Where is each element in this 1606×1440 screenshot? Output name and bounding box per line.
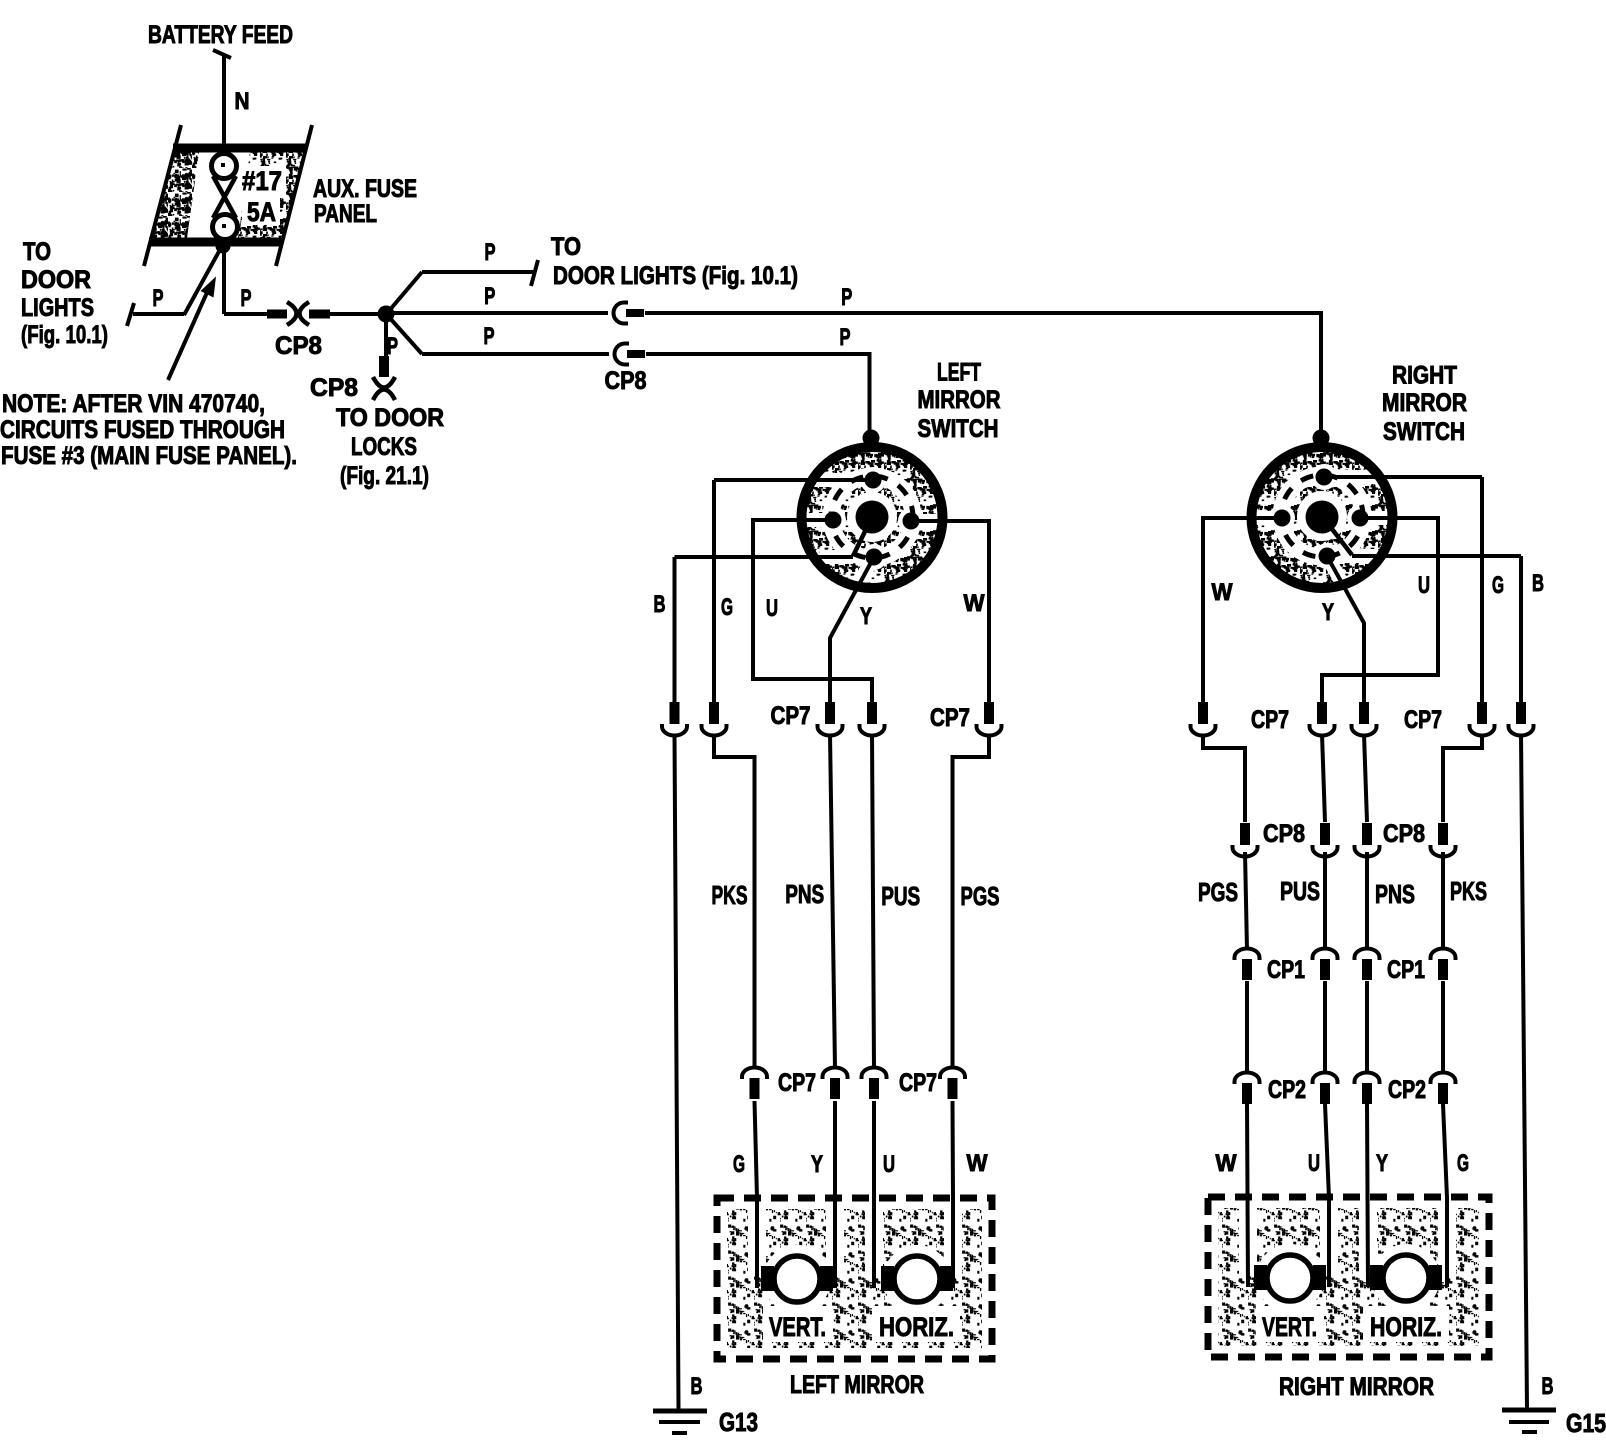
svg-text:G: G <box>1492 572 1504 599</box>
note arrow after VIN 470740 <box>168 277 216 381</box>
left switch center pin <box>856 501 889 534</box>
label CP8 right row b <box>1383 820 1425 848</box>
svg-text:HORIZ.: HORIZ. <box>1370 1312 1442 1342</box>
label RIGHT MIRROR SWITCH <box>1382 362 1467 447</box>
wire U left upper <box>753 520 872 703</box>
label RIGHT MIRROR <box>1279 1373 1434 1401</box>
svg-text:CP2: CP2 <box>1268 1076 1306 1104</box>
label CP7 left row2 a <box>778 1069 816 1097</box>
svg-text:P: P <box>241 285 252 312</box>
svg-text:SWITCH: SWITCH <box>918 415 999 443</box>
label PUS left <box>881 881 920 911</box>
svg-text:G: G <box>1457 1150 1469 1177</box>
label LEFT MIRROR SWITCH <box>918 359 1001 444</box>
connector CP8 door locks <box>373 356 395 400</box>
svg-text:FUSE #3 (MAIN FUSE PANEL).: FUSE #3 (MAIN FUSE PANEL). <box>1 442 297 470</box>
wire U right upper <box>1322 518 1438 703</box>
right switch rim <box>1252 447 1393 588</box>
connector CP1 Y right <box>1355 949 1380 980</box>
wire B right <box>1352 556 1521 703</box>
svg-text:PNS: PNS <box>785 879 824 909</box>
label BATTERY FEED <box>148 21 293 49</box>
label HORIZ. right <box>1370 1312 1442 1342</box>
connector CP2 G right <box>1431 1073 1456 1105</box>
label W left <box>964 590 985 617</box>
svg-text:PKS: PKS <box>1450 876 1487 906</box>
label LEFT MIRROR <box>790 1371 924 1399</box>
wire W into right mirror <box>1247 1104 1248 1287</box>
fuse panel (AUX. FUSE PANEL) <box>144 125 312 266</box>
connector CP1 U right <box>1313 949 1338 980</box>
label W right <box>1212 579 1233 606</box>
ground G15 <box>1502 1410 1556 1432</box>
connector CP7 W left lower <box>940 1068 965 1100</box>
left switch rim <box>802 447 943 588</box>
wire U right low <box>1323 981 1327 1072</box>
label AUX. FUSE PANEL <box>313 175 417 228</box>
label TO DOOR LOCKS (Fig. 21.1) <box>336 404 444 490</box>
svg-text:CP1: CP1 <box>1267 956 1305 984</box>
svg-text:PUS: PUS <box>881 881 920 911</box>
label #17 <box>242 166 282 196</box>
connector CP7 B right <box>1509 702 1534 736</box>
label PNS right <box>1375 879 1415 909</box>
label B left bottom <box>691 1373 703 1400</box>
label VERT. right <box>1262 1312 1317 1342</box>
right switch pin S <box>1319 548 1336 565</box>
label PKS right <box>1450 876 1487 906</box>
wiper left switch <box>853 517 872 556</box>
label HORIZ. left <box>879 1312 954 1342</box>
svg-text:LEFT: LEFT <box>937 359 981 387</box>
connector CP8 Y right <box>1355 823 1380 857</box>
label U left <box>766 595 778 622</box>
svg-text:#17: #17 <box>242 166 282 196</box>
label U right bottom <box>1308 1150 1320 1177</box>
right switch pin N <box>1316 469 1333 486</box>
node right switch feed <box>1313 430 1330 447</box>
connector CP7 B left <box>662 702 687 736</box>
label CP8 right row a <box>1263 820 1305 848</box>
label P low right <box>840 324 851 351</box>
svg-text:CP8: CP8 <box>1263 820 1305 848</box>
wire battery feed N <box>213 50 231 148</box>
wire P fuse output down <box>222 246 226 314</box>
connector CP7 Y left lower <box>823 1068 848 1100</box>
wire Y into left mirror <box>833 1101 837 1288</box>
svg-text:G13: G13 <box>719 1407 758 1437</box>
left mirror box border <box>717 1198 992 1359</box>
wire W right upper <box>1203 518 1282 703</box>
svg-text:U: U <box>766 595 778 622</box>
label CP1 right row a <box>1267 956 1305 984</box>
label TO DOOR LIGHTS (Fig. 10.1) top <box>551 233 798 290</box>
wire P fuse to door lights stub <box>127 246 222 326</box>
svg-text:CP7: CP7 <box>1404 706 1442 734</box>
svg-text:SWITCH: SWITCH <box>1383 418 1465 446</box>
svg-text:B: B <box>1542 1373 1554 1400</box>
svg-text:5A: 5A <box>247 197 276 227</box>
connector CP8 U right <box>1313 823 1338 857</box>
label P door locks <box>387 333 398 360</box>
motor VERT right mirror <box>1254 1255 1326 1301</box>
svg-text:P: P <box>484 323 495 350</box>
connector CP7 Y right <box>1352 702 1377 736</box>
wire U right mid <box>1322 734 1325 822</box>
left switch pin E <box>903 513 920 530</box>
svg-text:U: U <box>883 1151 895 1178</box>
wire Y left upper <box>830 557 874 703</box>
svg-text:P: P <box>841 284 852 311</box>
svg-text:P: P <box>387 333 398 360</box>
label CP1 right row b <box>1387 956 1425 984</box>
connector CP8 inline <box>267 302 330 325</box>
connector CP1 G right <box>1431 949 1456 980</box>
svg-text:CP2: CP2 <box>1388 1076 1426 1104</box>
switch body right mirror switch <box>1244 448 1398 618</box>
label P low left <box>484 323 495 350</box>
wire G right mid <box>1443 734 1482 822</box>
right mirror box fill <box>1218 1204 1479 1346</box>
note text <box>0 390 297 470</box>
connector CP8 G right <box>1431 823 1456 857</box>
svg-text:CP7: CP7 <box>899 1069 937 1097</box>
wire Y PNS <box>830 734 835 1068</box>
svg-text:PNS: PNS <box>1375 879 1415 909</box>
svg-text:LEFT MIRROR: LEFT MIRROR <box>790 1371 924 1399</box>
node P distribution junction <box>378 306 395 323</box>
svg-text:BATTERY FEED: BATTERY FEED <box>148 21 293 49</box>
label CP2 right row b <box>1388 1076 1426 1104</box>
label W right bottom <box>1216 1150 1237 1177</box>
label Y right <box>1322 599 1334 626</box>
wire B left lower <box>675 734 679 1409</box>
wire W PGS right <box>1245 852 1247 950</box>
svg-text:G: G <box>721 594 733 621</box>
svg-text:PGS: PGS <box>961 881 1000 911</box>
svg-text:CP8: CP8 <box>310 374 358 402</box>
wire P main to right switch <box>394 311 608 315</box>
label VERT. left <box>769 1312 826 1342</box>
label W left bottom <box>967 1150 988 1177</box>
connector CP7 U left <box>860 702 885 736</box>
node fuse output junction <box>216 239 231 254</box>
label CP8 low <box>605 367 647 395</box>
wire Y right low <box>1365 981 1369 1072</box>
label Y left <box>860 603 872 630</box>
wire U into right mirror <box>1325 1104 1329 1287</box>
wire G into left mirror <box>755 1101 758 1288</box>
wire G left upper <box>714 480 873 703</box>
label CP7 right row a <box>1251 706 1289 734</box>
wire P to left switch <box>388 316 609 354</box>
right switch pin W <box>1274 510 1291 527</box>
label CP8 door locks <box>310 374 358 402</box>
svg-text:CP8: CP8 <box>1383 820 1425 848</box>
label CP7 left row1 a <box>771 702 811 730</box>
motor HORIZ left mirror <box>881 1256 953 1302</box>
svg-text:PANEL: PANEL <box>314 200 377 228</box>
wire Y right mid <box>1364 734 1367 822</box>
label U right <box>1418 572 1430 599</box>
svg-text:N: N <box>235 88 250 115</box>
svg-text:NOTE: AFTER VIN 470740,: NOTE: AFTER VIN 470740, <box>2 390 265 418</box>
svg-text:VERT.: VERT. <box>1262 1312 1317 1342</box>
connector CP8 on left switch wire <box>615 344 646 365</box>
label PGS left <box>961 881 1000 911</box>
svg-text:RIGHT MIRROR: RIGHT MIRROR <box>1279 1373 1434 1401</box>
wire W right mid <box>1203 734 1245 822</box>
label CP7 left row1 b <box>930 704 970 732</box>
connector CP7 W left <box>977 702 1002 736</box>
svg-text:W: W <box>1216 1150 1237 1177</box>
svg-text:U: U <box>1418 572 1430 599</box>
svg-text:TO: TO <box>551 233 581 261</box>
left switch pin W <box>825 512 842 529</box>
svg-text:(Fig. 21.1): (Fig. 21.1) <box>340 462 429 490</box>
svg-text:RIGHT: RIGHT <box>1392 362 1457 390</box>
svg-text:TO: TO <box>23 238 51 266</box>
wire U PUS <box>872 734 874 1068</box>
wire W PGS <box>953 734 990 1068</box>
svg-text:PUS: PUS <box>1280 876 1320 906</box>
svg-text:DOOR LIGHTS (Fig. 10.1): DOOR LIGHTS (Fig. 10.1) <box>553 262 798 290</box>
svg-text:CP7: CP7 <box>930 704 970 732</box>
wire Y PNS right <box>1365 852 1369 950</box>
svg-text:CP7: CP7 <box>771 702 811 730</box>
svg-text:B: B <box>691 1373 703 1400</box>
left switch pin N <box>865 472 882 489</box>
label PKS left <box>712 880 748 910</box>
svg-text:Y: Y <box>1322 599 1334 626</box>
label P branch top <box>485 239 496 266</box>
label Y left bottom <box>811 1151 823 1178</box>
right switch center pin <box>1306 501 1339 534</box>
connector CP7 W right <box>1191 702 1216 736</box>
label G right bottom <box>1457 1150 1469 1177</box>
svg-text:P: P <box>484 283 495 310</box>
label B right <box>1532 570 1544 597</box>
label TO DOOR LIGHTS (Fig. 10.1) left <box>21 238 108 349</box>
left mirror box fill <box>727 1205 982 1348</box>
connector CP2 W right <box>1235 1073 1260 1105</box>
wire Y right upper <box>1327 556 1364 703</box>
label G left <box>721 594 733 621</box>
label PNS left <box>785 879 824 909</box>
wire G right upper <box>1324 477 1482 703</box>
wire U into left mirror <box>872 1101 876 1288</box>
svg-text:P: P <box>485 239 496 266</box>
svg-text:(Fig. 10.1): (Fig. 10.1) <box>21 321 108 349</box>
svg-text:PGS: PGS <box>1198 877 1238 907</box>
connector CP7 G left <box>702 702 727 736</box>
label U left bottom <box>883 1151 895 1178</box>
label P door lights stub <box>153 285 164 312</box>
label Y right bottom <box>1376 1150 1388 1177</box>
fuse #17 5A <box>212 150 238 240</box>
connector CP7 U right <box>1310 702 1335 736</box>
svg-text:U: U <box>1308 1150 1320 1177</box>
connector CP7 U left lower <box>862 1068 887 1100</box>
label CP2 right row a <box>1268 1076 1306 1104</box>
motor HORIZ right mirror <box>1370 1255 1442 1301</box>
svg-text:W: W <box>964 590 985 617</box>
wire G PKS <box>714 734 755 1068</box>
wire B left <box>675 557 854 703</box>
ground G13 <box>653 1411 707 1433</box>
wire Y into right mirror <box>1367 1104 1368 1287</box>
svg-text:CP7: CP7 <box>1251 706 1289 734</box>
switch body left mirror switch <box>795 448 949 620</box>
wire CP8 to junction <box>330 312 382 316</box>
wire U PUS right <box>1323 852 1327 950</box>
label PGS right <box>1198 877 1238 907</box>
svg-text:W: W <box>1212 579 1233 606</box>
label CP7 right row b <box>1404 706 1442 734</box>
node left switch feed <box>863 430 880 447</box>
svg-text:LOCKS: LOCKS <box>351 433 417 461</box>
svg-text:P: P <box>153 285 164 312</box>
svg-text:TO DOOR: TO DOOR <box>336 404 444 432</box>
svg-text:CP7: CP7 <box>778 1069 816 1097</box>
right mirror box border <box>1208 1197 1489 1357</box>
wire P to left switch cont <box>646 352 870 434</box>
wire G into right mirror <box>1443 1104 1447 1287</box>
label G13 <box>719 1407 758 1437</box>
connector CP2 Y right <box>1355 1073 1380 1105</box>
wire W right low <box>1245 981 1249 1072</box>
label G left bottom <box>733 1151 745 1178</box>
svg-text:W: W <box>967 1150 988 1177</box>
connector CP8 W right <box>1233 823 1258 857</box>
wire P to door locks <box>384 314 388 357</box>
wire P main continued <box>645 311 1321 434</box>
svg-text:DOOR: DOOR <box>21 266 91 294</box>
connector CP7 G right <box>1470 702 1495 736</box>
label P mid right <box>841 284 852 311</box>
label CP8 inline <box>275 332 322 360</box>
wire W into left mirror <box>951 1101 956 1288</box>
label P fuse output <box>241 285 252 312</box>
svg-text:LIGHTS: LIGHTS <box>21 294 94 322</box>
svg-text:P: P <box>840 324 851 351</box>
label G right <box>1492 572 1504 599</box>
label G15 <box>1566 1408 1606 1438</box>
svg-text:CIRCUITS FUSED THROUGH: CIRCUITS FUSED THROUGH <box>0 416 285 444</box>
wire P branch to door lights top <box>388 260 538 312</box>
svg-text:Y: Y <box>860 603 872 630</box>
svg-text:B: B <box>1532 570 1544 597</box>
svg-text:G15: G15 <box>1566 1408 1606 1438</box>
connector CP1 W right <box>1235 949 1260 980</box>
wire G right low <box>1441 981 1445 1072</box>
connector CP7 Y left <box>818 702 843 736</box>
svg-text:G: G <box>733 1151 745 1178</box>
svg-text:HORIZ.: HORIZ. <box>879 1312 954 1342</box>
connector CP2 U right <box>1313 1073 1338 1105</box>
svg-text:MIRROR: MIRROR <box>918 386 1001 414</box>
label B right bottom <box>1542 1373 1554 1400</box>
label 5A <box>247 197 276 227</box>
svg-text:PKS: PKS <box>712 880 748 910</box>
svg-text:Y: Y <box>1376 1150 1388 1177</box>
svg-text:CP8: CP8 <box>605 367 647 395</box>
motor VERT left mirror <box>761 1256 833 1302</box>
svg-text:CP1: CP1 <box>1387 956 1425 984</box>
connector CP7 G left lower <box>742 1068 767 1100</box>
connector on main wire <box>614 303 645 324</box>
svg-text:CP8: CP8 <box>275 332 322 360</box>
right switch pin E <box>1352 510 1369 527</box>
wire W left upper <box>911 521 989 703</box>
left switch pin S <box>866 549 883 566</box>
label PUS right <box>1280 876 1320 906</box>
svg-text:VERT.: VERT. <box>769 1312 826 1342</box>
wire P to CP8 <box>224 312 268 316</box>
svg-text:Y: Y <box>811 1151 823 1178</box>
svg-text:MIRROR: MIRROR <box>1382 389 1467 417</box>
label N wire code <box>235 88 250 115</box>
label B left <box>654 591 666 618</box>
wiper right switch <box>1322 516 1352 555</box>
svg-text:B: B <box>654 591 666 618</box>
label CP7 left row2 b <box>899 1069 937 1097</box>
svg-text:AUX. FUSE: AUX. FUSE <box>313 175 417 203</box>
label P mid left <box>484 283 495 310</box>
wire G PKS right <box>1441 852 1445 950</box>
wire B right lower <box>1521 734 1527 1409</box>
